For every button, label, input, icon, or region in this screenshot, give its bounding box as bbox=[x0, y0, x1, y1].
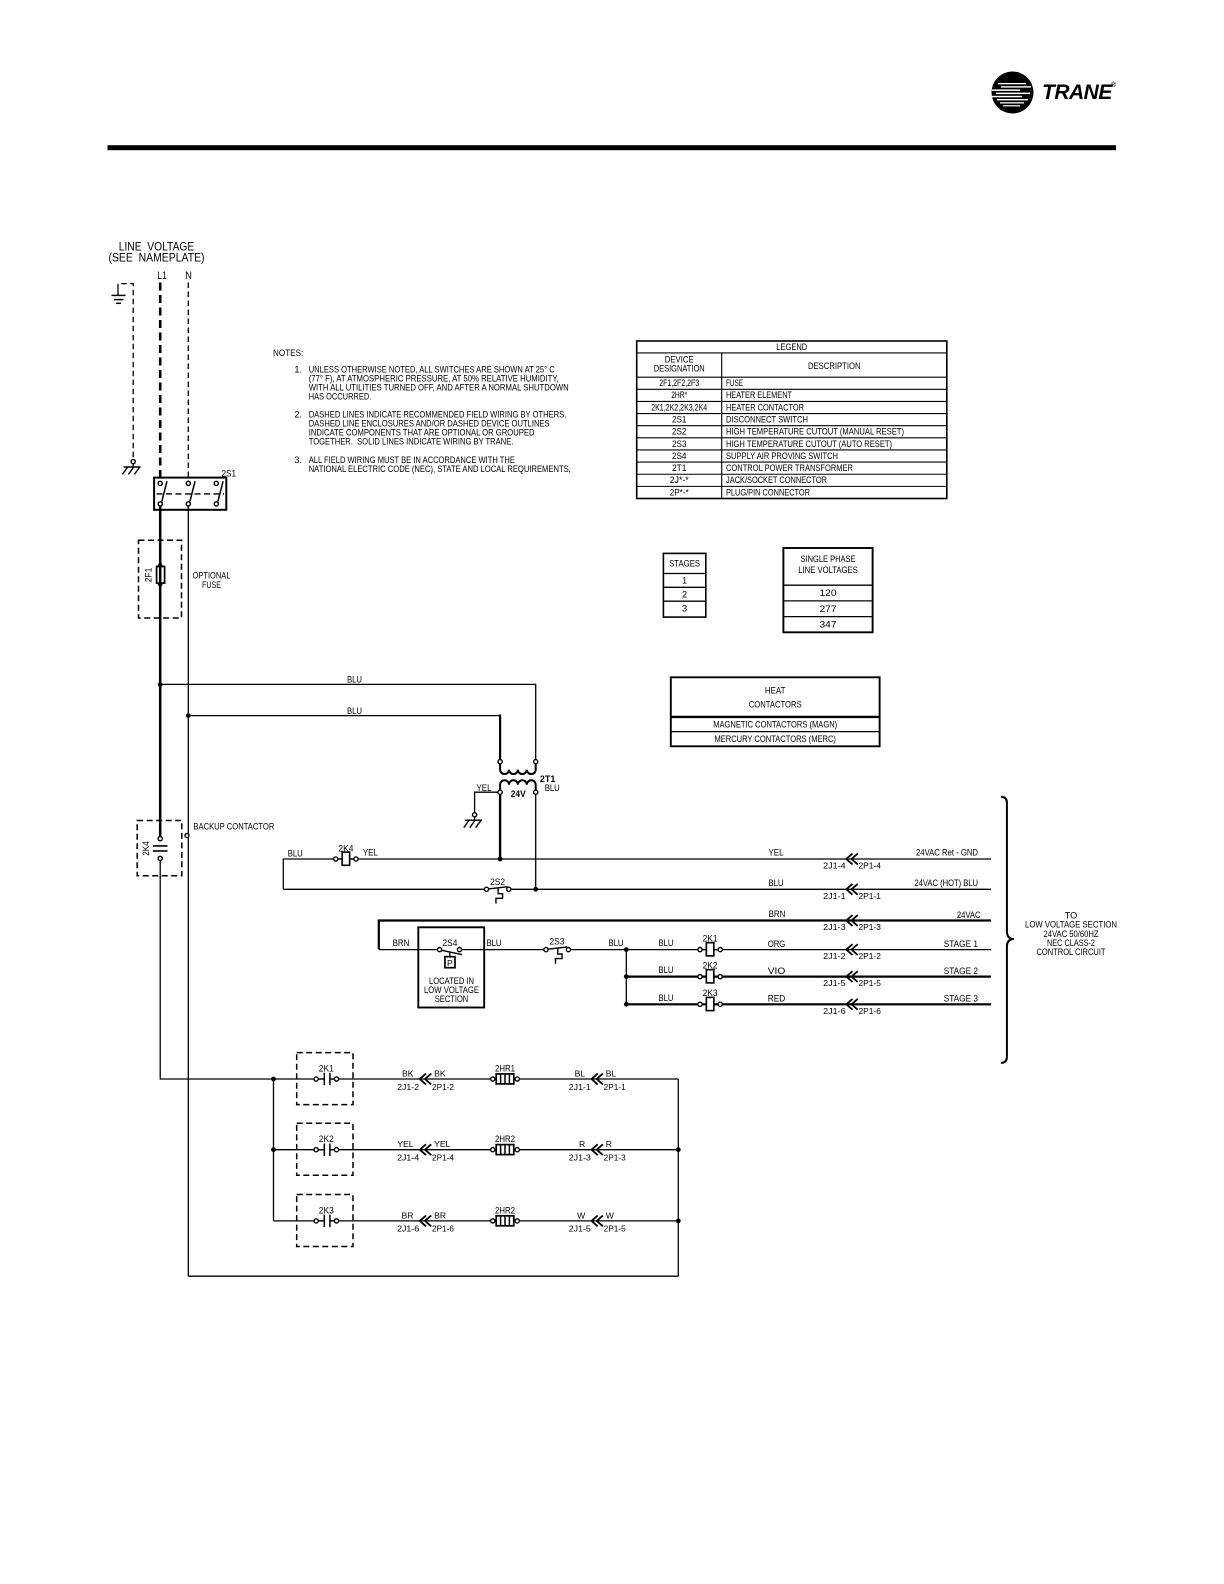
coil 2K2 bbox=[698, 975, 702, 979]
wire BLU row (24VAC HOT) bbox=[283, 888, 991, 890]
svg-text:HEAT: HEAT bbox=[765, 686, 786, 696]
wire N return bottom bbox=[188, 1275, 678, 1277]
wire BLU N to transformer primary left bbox=[188, 715, 500, 717]
wire L1 fuse to backup contactor bbox=[159, 583, 162, 836]
wire BLU L1 to transformer primary right bbox=[160, 684, 536, 759]
heater right bus bbox=[677, 1079, 679, 1276]
svg-text:N: N bbox=[185, 270, 192, 282]
junction dot BLU tap on N bbox=[186, 713, 191, 718]
svg-text:2F1,2F2,2F3: 2F1,2F2,2F3 bbox=[659, 378, 699, 388]
svg-text:STAGE 3: STAGE 3 bbox=[944, 994, 978, 1004]
svg-text:2HR2: 2HR2 bbox=[495, 1134, 515, 1144]
svg-text:2K3: 2K3 bbox=[319, 1205, 334, 1215]
wire BRN row (24VAC) bbox=[379, 921, 991, 950]
svg-text:2S3: 2S3 bbox=[672, 439, 687, 449]
svg-text:2K2: 2K2 bbox=[703, 960, 718, 970]
svg-text:2K1: 2K1 bbox=[703, 933, 718, 943]
svg-text:BLU: BLU bbox=[347, 706, 362, 716]
svg-text:2P1-4: 2P1-4 bbox=[432, 1154, 454, 1163]
svg-text:2K2: 2K2 bbox=[319, 1134, 334, 1144]
svg-text:YEL: YEL bbox=[397, 1139, 413, 1149]
junction dot BLU tap on L1 bbox=[158, 682, 163, 687]
svg-text:BL: BL bbox=[575, 1068, 586, 1078]
svg-text:2HR*: 2HR* bbox=[671, 390, 687, 400]
Trane logo bbox=[991, 72, 1117, 114]
svg-text:HEATER ELEMENT: HEATER ELEMENT bbox=[726, 390, 792, 400]
junction dot heater bus mid bbox=[271, 1147, 276, 1152]
contact 2K3 bbox=[324, 1218, 330, 1223]
wire secondary right to BLU row bbox=[535, 794, 537, 889]
svg-text:BK: BK bbox=[434, 1068, 446, 1078]
svg-text:2P1-2: 2P1-2 bbox=[859, 952, 882, 961]
svg-text:FUSE: FUSE bbox=[202, 580, 221, 590]
earth ground (top left) bbox=[117, 289, 119, 295]
svg-text:2K4: 2K4 bbox=[141, 841, 151, 856]
svg-text:2J1-1: 2J1-1 bbox=[823, 892, 846, 901]
svg-text:®: ® bbox=[1111, 81, 1117, 89]
connector 2J1-2 2P1-2 bbox=[420, 1074, 426, 1085]
connector 2J1-6 2P1-6 bbox=[846, 999, 852, 1010]
connector 2J1-3 2P1-3 bbox=[592, 1144, 598, 1155]
svg-text:R: R bbox=[606, 1139, 612, 1149]
optional fuse dashed enclosure bbox=[139, 540, 182, 618]
svg-text:CONTROL CIRCUIT: CONTROL CIRCUIT bbox=[1037, 947, 1106, 957]
heater element 2HR1 bbox=[491, 1077, 495, 1081]
svg-text:2J1-3: 2J1-3 bbox=[823, 923, 846, 932]
connector 2J1-3 2P1-3 bbox=[846, 915, 852, 926]
svg-text:24VAC Ret - GND: 24VAC Ret - GND bbox=[916, 848, 978, 858]
svg-text:2J1-2: 2J1-2 bbox=[397, 1083, 419, 1092]
svg-text:DISCONNECT SWITCH: DISCONNECT SWITCH bbox=[726, 414, 808, 424]
dashed field ground wire bbox=[118, 284, 133, 458]
backup contactor 2K4 dashed enclosure bbox=[137, 821, 182, 876]
wire YEL row (24VAC Ret) bbox=[283, 859, 991, 889]
svg-text:LEGEND: LEGEND bbox=[776, 342, 807, 352]
stage bus vertical bbox=[625, 950, 627, 1005]
svg-text:BLU: BLU bbox=[609, 938, 624, 948]
junction dot right bus bottom bbox=[676, 1219, 681, 1224]
svg-text:CONTACTORS: CONTACTORS bbox=[749, 700, 802, 710]
svg-text:2S2: 2S2 bbox=[672, 427, 687, 437]
svg-text:P: P bbox=[447, 958, 453, 968]
svg-text:LINE VOLTAGES: LINE VOLTAGES bbox=[798, 565, 858, 575]
svg-text:RED: RED bbox=[768, 994, 786, 1004]
svg-text:HIGH TEMPERATURE CUTOUT (MANUA: HIGH TEMPERATURE CUTOUT (MANUAL RESET) bbox=[726, 427, 904, 437]
svg-text:2F1: 2F1 bbox=[144, 568, 154, 583]
junction dot stage bus bottom bbox=[624, 1002, 629, 1007]
svg-text:BLU: BLU bbox=[487, 938, 502, 948]
wire secondary left to YEL row bbox=[499, 794, 501, 859]
svg-text:FUSE: FUSE bbox=[726, 378, 743, 388]
svg-text:2P1-6: 2P1-6 bbox=[859, 1007, 882, 1016]
transformer 2T1 bbox=[498, 760, 502, 764]
svg-text:24VAC (HOT) BLU: 24VAC (HOT) BLU bbox=[915, 878, 979, 888]
junction dot YEL row bbox=[498, 857, 503, 862]
svg-text:MERCURY CONTACTORS (MERC): MERCURY CONTACTORS (MERC) bbox=[714, 734, 836, 744]
disconnect switch 2S1 bbox=[154, 478, 226, 510]
svg-text:YEL: YEL bbox=[769, 848, 784, 858]
svg-text:2J1-5: 2J1-5 bbox=[823, 979, 846, 988]
wire L1 below 2K4 bbox=[159, 861, 161, 1079]
svg-text:120: 120 bbox=[820, 588, 837, 598]
wire heater row 2K1 bbox=[274, 1078, 679, 1080]
svg-text:2P1-1: 2P1-1 bbox=[604, 1083, 626, 1092]
supply air proving switch 2S4 box bbox=[418, 927, 484, 1007]
svg-text:2S4: 2S4 bbox=[672, 451, 687, 461]
wire 2S4/stage1 row bbox=[379, 949, 991, 951]
svg-text:R: R bbox=[579, 1139, 585, 1149]
svg-text:2P1-2: 2P1-2 bbox=[432, 1083, 454, 1092]
svg-text:STAGES: STAGES bbox=[669, 559, 700, 569]
svg-text:2J1-2: 2J1-2 bbox=[823, 952, 846, 961]
svg-text:1.: 1. bbox=[294, 364, 302, 374]
contactor 2K1 dashed enclosure bbox=[297, 1053, 353, 1105]
connector 2J1-4 2P1-4 bbox=[420, 1144, 426, 1155]
svg-text:PLUG/PIN CONNECTOR: PLUG/PIN CONNECTOR bbox=[726, 487, 810, 497]
svg-text:277: 277 bbox=[820, 604, 837, 614]
heater left bus bbox=[273, 1079, 275, 1221]
svg-text:SINGLE PHASE: SINGLE PHASE bbox=[801, 554, 856, 564]
wire L1 solid below 2S1 bbox=[159, 506, 162, 586]
contactor 2K2 dashed enclosure bbox=[297, 1123, 353, 1175]
svg-text:DESCRIPTION: DESCRIPTION bbox=[808, 361, 861, 371]
wire heater row 2K3 bbox=[274, 1220, 679, 1222]
legend table bbox=[637, 341, 947, 499]
svg-text:2P1-6: 2P1-6 bbox=[432, 1225, 454, 1234]
connector 2J1-5 2P1-5 bbox=[592, 1216, 598, 1227]
svg-text:BLU: BLU bbox=[659, 993, 674, 1003]
svg-text:2J1-5: 2J1-5 bbox=[569, 1225, 591, 1234]
svg-text:MAGNETIC CONTACTORS (MAGN): MAGNETIC CONTACTORS (MAGN) bbox=[713, 719, 837, 729]
heater element 2HR2 bbox=[491, 1219, 495, 1223]
svg-text:BR: BR bbox=[402, 1210, 414, 1220]
svg-text:2P1-5: 2P1-5 bbox=[604, 1225, 626, 1234]
wire stage row STAGE 2 bbox=[626, 975, 991, 977]
svg-text:24VAC: 24VAC bbox=[957, 910, 981, 920]
svg-text:W: W bbox=[606, 1210, 615, 1220]
coil 2K3 bbox=[698, 1002, 702, 1006]
svg-text:2P1-1: 2P1-1 bbox=[859, 892, 882, 901]
stages table bbox=[663, 553, 705, 617]
heat contactors table bbox=[671, 677, 880, 746]
chassis ground (above 2S1) bbox=[131, 460, 135, 464]
junction dot stage bus top bbox=[624, 947, 629, 952]
svg-text:BLU: BLU bbox=[769, 878, 784, 888]
wire N dashed (field wiring) bbox=[187, 283, 189, 484]
connector 2J1-1 2P1-1 bbox=[846, 884, 852, 895]
svg-text:TRANE: TRANE bbox=[1042, 81, 1113, 104]
connector 2J1-6 2P1-6 bbox=[420, 1216, 426, 1227]
svg-text:BL: BL bbox=[606, 1068, 617, 1078]
connector 2J1-1 2P1-1 bbox=[592, 1074, 598, 1085]
svg-text:2J1-1: 2J1-1 bbox=[569, 1083, 591, 1092]
junction dot stage bus mid bbox=[624, 974, 629, 979]
svg-text:3: 3 bbox=[682, 603, 687, 613]
svg-text:347: 347 bbox=[820, 620, 837, 630]
svg-text:2P1-4: 2P1-4 bbox=[859, 862, 882, 871]
svg-text:BLU: BLU bbox=[659, 965, 674, 975]
svg-text:2K4: 2K4 bbox=[338, 843, 353, 853]
contact 2K4 bbox=[158, 837, 162, 841]
svg-text:ORG: ORG bbox=[768, 939, 786, 949]
svg-text:HIGH TEMPERATURE CUTOUT (AUTO: HIGH TEMPERATURE CUTOUT (AUTO RESET) bbox=[726, 439, 892, 449]
svg-text:2J*-*: 2J*-* bbox=[670, 475, 689, 485]
svg-text:1: 1 bbox=[682, 576, 687, 586]
svg-text:BLU: BLU bbox=[659, 938, 674, 948]
heater element 2HR2 bbox=[491, 1148, 495, 1152]
svg-text:YEL: YEL bbox=[363, 847, 378, 857]
svg-text:HEATER CONTACTOR: HEATER CONTACTOR bbox=[726, 402, 804, 412]
wire YEL secondary to ground bbox=[475, 792, 498, 812]
svg-text:2P1-3: 2P1-3 bbox=[604, 1154, 626, 1163]
wire L1 dashed (field wiring) bbox=[159, 283, 162, 484]
svg-text:STAGE 1: STAGE 1 bbox=[944, 939, 978, 949]
svg-text:2S2: 2S2 bbox=[490, 877, 505, 887]
coil 2K1 bbox=[698, 948, 702, 952]
junction dot heater bus top bbox=[271, 1077, 276, 1082]
switch 2S2 high temp cutout manual bbox=[489, 888, 507, 891]
fuse 2F1 bbox=[157, 567, 165, 584]
connector 2J1-5 2P1-5 bbox=[846, 971, 852, 982]
svg-text:VIO: VIO bbox=[768, 966, 786, 976]
svg-text:DESIGNATION: DESIGNATION bbox=[654, 364, 705, 374]
svg-text:2J1-6: 2J1-6 bbox=[823, 1007, 846, 1016]
svg-text:2S1: 2S1 bbox=[672, 414, 687, 424]
switch 2S3 high temp cutout auto bbox=[548, 948, 566, 951]
wire stage row STAGE 3 bbox=[626, 1003, 991, 1005]
junction dot BLU row bbox=[533, 887, 538, 892]
svg-text:BRN: BRN bbox=[393, 938, 410, 948]
svg-text:2K1: 2K1 bbox=[319, 1063, 334, 1073]
svg-text:24V: 24V bbox=[511, 789, 527, 799]
svg-text:2S4: 2S4 bbox=[442, 938, 457, 948]
coil 2K4 bbox=[334, 857, 338, 861]
svg-text:L1: L1 bbox=[157, 270, 166, 282]
svg-text:2HR2: 2HR2 bbox=[495, 1205, 515, 1215]
svg-text:BLU: BLU bbox=[545, 783, 560, 793]
connector 2J1-2 2P1-2 bbox=[846, 944, 852, 955]
contact 2K2 bbox=[324, 1147, 330, 1152]
header rule bbox=[108, 145, 1117, 150]
svg-text:TOGETHER. SOLID LINES INDICAT: TOGETHER. SOLID LINES INDICATE WIRING BY… bbox=[309, 437, 514, 447]
contact 2K1 bbox=[324, 1077, 330, 1082]
svg-text:BACKUP CONTACTOR: BACKUP CONTACTOR bbox=[193, 821, 274, 831]
svg-text:HAS OCCURRED.: HAS OCCURRED. bbox=[309, 392, 372, 402]
svg-text:(SEE NAMEPLATE): (SEE NAMEPLATE) bbox=[109, 251, 205, 265]
svg-text:YEL: YEL bbox=[434, 1139, 450, 1149]
svg-text:NOTES:: NOTES: bbox=[273, 348, 303, 359]
wire N solid 2S1 to bottom bbox=[187, 506, 189, 1276]
svg-text:STAGE 2: STAGE 2 bbox=[944, 966, 978, 976]
svg-text:BR: BR bbox=[434, 1210, 446, 1220]
svg-text:NATIONAL ELECTRIC CODE (NEC),: NATIONAL ELECTRIC CODE (NEC), STATE AND … bbox=[309, 464, 571, 474]
junction dot right bus mid bbox=[676, 1147, 681, 1152]
wire L1 to heater rows bbox=[160, 1078, 273, 1080]
svg-text:2K3: 2K3 bbox=[703, 988, 718, 998]
svg-text:2J1-4: 2J1-4 bbox=[397, 1154, 419, 1163]
svg-text:2.: 2. bbox=[294, 409, 302, 419]
svg-text:BLU: BLU bbox=[288, 848, 303, 858]
terminal circle on N line bbox=[185, 834, 189, 838]
svg-text:2S1: 2S1 bbox=[222, 469, 237, 479]
contactor 2K3 dashed enclosure bbox=[297, 1195, 353, 1247]
svg-text:YEL: YEL bbox=[477, 783, 492, 793]
svg-text:SUPPLY AIR PROVING SWITCH: SUPPLY AIR PROVING SWITCH bbox=[726, 451, 838, 461]
svg-text:BK: BK bbox=[402, 1068, 414, 1078]
svg-text:2: 2 bbox=[682, 589, 687, 599]
svg-text:2J1-3: 2J1-3 bbox=[569, 1154, 591, 1163]
svg-text:2HR1: 2HR1 bbox=[495, 1063, 515, 1073]
svg-text:CONTROL POWER TRANSFORMER: CONTROL POWER TRANSFORMER bbox=[726, 463, 853, 473]
svg-text:2J1-4: 2J1-4 bbox=[823, 862, 846, 871]
svg-text:BLU: BLU bbox=[347, 675, 362, 685]
svg-text:2J1-6: 2J1-6 bbox=[397, 1225, 419, 1234]
svg-text:BRN: BRN bbox=[769, 909, 786, 919]
wire stage row STAGE 1 bbox=[626, 949, 991, 951]
svg-text:2P1-5: 2P1-5 bbox=[859, 979, 882, 988]
svg-text:2S3: 2S3 bbox=[550, 937, 565, 947]
svg-text:2P*-*: 2P*-* bbox=[670, 487, 689, 497]
svg-text:2T1: 2T1 bbox=[672, 463, 687, 473]
wire heater row 2K2 bbox=[274, 1149, 679, 1151]
single phase line voltages table bbox=[783, 548, 872, 632]
svg-text:W: W bbox=[577, 1210, 586, 1220]
connector 2J1-4 2P1-4 bbox=[846, 854, 852, 865]
svg-text:2K1,2K2,2K3,2K4: 2K1,2K2,2K3,2K4 bbox=[651, 402, 707, 412]
svg-text:SECTION: SECTION bbox=[435, 994, 469, 1004]
svg-text:3.: 3. bbox=[294, 455, 302, 465]
svg-text:JACK/SOCKET CONNECTOR: JACK/SOCKET CONNECTOR bbox=[726, 475, 827, 485]
brace to low voltage section bbox=[1001, 797, 1014, 1063]
chassis ground (transformer secondary) bbox=[473, 813, 477, 817]
svg-text:2P1-3: 2P1-3 bbox=[859, 923, 882, 932]
